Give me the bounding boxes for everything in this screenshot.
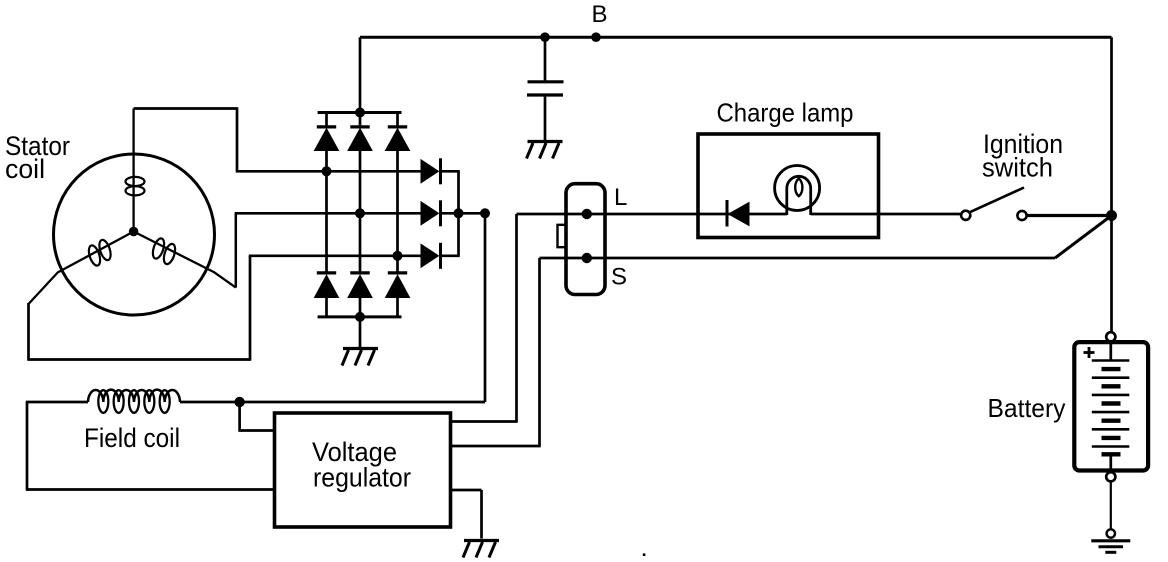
wire: stator right lead riser to phase 2 (235, 213, 238, 287)
stator phase winding top coil loops (126, 177, 145, 196)
stator phase winding top lead (132, 109, 134, 232)
stator right phase lead (134, 232, 236, 288)
wire: regulator ground drop (480, 490, 483, 539)
node: phase 1 to rectifier junction (322, 166, 332, 176)
wire: right rail down from top wire to ignition junction (1110, 37, 1113, 215)
battery cells (1092, 341, 1130, 470)
node: field supply junction (480, 208, 490, 218)
node: phase 3 to rectifier junction (393, 251, 403, 261)
stator left coil loops (87, 239, 113, 267)
diode D10 (lamp diode) (727, 200, 749, 227)
diode D8 (trio diode) (421, 200, 460, 226)
wire: regulator S pin (451, 445, 541, 448)
lamp bulb (775, 166, 820, 216)
wire: L riser down to regulator (515, 214, 518, 422)
node: phase 2 to rectifier junction (355, 208, 365, 218)
connector body (alternator plug) (566, 184, 605, 295)
diode D3 (positive rectifier) (386, 113, 410, 273)
wire: stator top lead vertical drop to phase 1 (236, 107, 239, 171)
wire: capacitor top lead (544, 37, 547, 80)
wire: field tap drop (238, 402, 241, 431)
wire: L line lamp to switch segment (811, 213, 962, 216)
node: ignition junction on battery rail (1106, 210, 1117, 221)
ground: voltage regulator (463, 541, 499, 558)
stator left phase lead (29, 232, 134, 305)
field coil L1 (88, 390, 180, 402)
svg-text:L: L (614, 184, 627, 211)
svg-text:Battery: Battery (988, 393, 1066, 423)
wire: phase 3 row to rectifier (249, 254, 422, 257)
svg-text:regulator: regulator (313, 463, 411, 493)
ignition switch arm (970, 188, 1024, 213)
wire: capacitor bottom lead (544, 96, 547, 141)
rectifier bottom bus (318, 315, 402, 318)
svg-text:S: S (611, 264, 627, 291)
svg-text:Charge lamp: Charge lamp (717, 98, 854, 128)
stator coil frame circle (54, 154, 215, 315)
wire: stator bottom loop horizontal (27, 358, 250, 361)
wire: field junction drop to field coil line (484, 213, 487, 402)
charge lamp box (698, 134, 879, 238)
wire: rectifier output bus vertical (457, 171, 460, 256)
wire: phase 2 row to rectifier (235, 212, 422, 215)
node: trio output on bus (454, 208, 464, 218)
battery case (1074, 342, 1148, 470)
wire: stator loop riser to phase 3 (249, 256, 252, 361)
svg-text:coil: coil (5, 154, 45, 184)
connector pin L (582, 209, 592, 219)
battery earth terminal eyelet (1107, 529, 1115, 537)
wire: regulator ground pin (451, 489, 482, 492)
ground: rectifier negative bus (342, 349, 378, 366)
ground: capacitor (527, 142, 563, 159)
paper speck artifact (643, 553, 646, 556)
wire: S diagonal up to ignition junction (1055, 216, 1112, 259)
battery plus sign (1084, 347, 1095, 358)
svg-text:switch: switch (982, 153, 1053, 183)
wire: field coil left vertical (26, 402, 29, 490)
stator right coil loops (151, 237, 178, 265)
wire: rectifier center column up to top bus (359, 37, 362, 112)
wire: L terminal line from regulator riser to ignition switch (517, 213, 787, 216)
voltage regulator box U1 (275, 413, 451, 527)
wire: switch to junction segment (1027, 214, 1112, 217)
diode D1 (positive rectifier) (315, 113, 339, 273)
wire: S line from riser to diagonal (540, 257, 1056, 260)
rectifier bottom bus junction (355, 312, 365, 322)
diode D6 (negative rectifier) (386, 273, 410, 317)
wire: field coil line right segment to field junction riser (180, 401, 485, 404)
wire: battery negative to earth (1110, 481, 1112, 529)
wire: rectifier output to field junction (459, 212, 486, 215)
node: capacitor tap on B+ wire (540, 32, 550, 42)
diode D7 (trio diode) (421, 158, 460, 184)
diode D5 (negative rectifier) (348, 273, 372, 317)
capacitor C1 (noise suppressor) (527, 82, 564, 95)
battery - terminal (1106, 472, 1115, 481)
connector keying tab (558, 225, 567, 247)
svg-text:B: B (592, 1, 608, 28)
battery + terminal (1106, 332, 1115, 341)
wire: field coil bottom return to regulator (26, 488, 275, 491)
wire: regulator L pin (451, 420, 518, 423)
wire: rectifier bottom bus to ground (359, 317, 362, 348)
ignition switch throw contact (1017, 211, 1026, 220)
rectifier top bus (318, 111, 402, 114)
diode D4 (negative rectifier) (315, 273, 339, 317)
wire: stator top lead horizontal (134, 107, 237, 110)
ground: battery earth (1091, 541, 1130, 553)
wire: S riser down to regulator (538, 258, 541, 446)
wire: field coil line left segment (26, 401, 88, 404)
wire: phase 1 row to rectifier (236, 170, 422, 173)
node: field tap junction (234, 397, 244, 407)
wire: right rail from junction down to battery + terminal (1110, 216, 1113, 333)
ignition switch pole contact (961, 211, 970, 220)
wire: B+ top bus from rectifier to battery rail (360, 36, 1112, 39)
wire: field tap into regulator (238, 429, 274, 432)
stator winding neutral node (129, 227, 139, 237)
diode D2 (positive rectifier) (348, 113, 372, 273)
wire: stator left lead down leg (27, 303, 30, 360)
rectifier top bus junction (355, 108, 365, 118)
svg-text:Field coil: Field coil (84, 423, 180, 453)
connector pin S (582, 253, 592, 263)
diode D9 (trio diode) (421, 243, 460, 269)
node B junction (591, 32, 601, 42)
